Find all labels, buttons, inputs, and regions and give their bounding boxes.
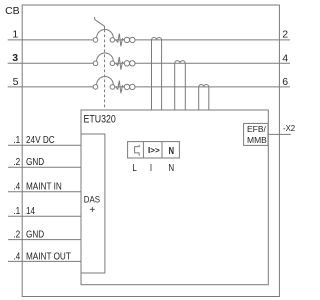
svg-text:N: N bbox=[168, 162, 174, 173]
svg-text:MAINT OUT: MAINT OUT bbox=[26, 249, 71, 261]
current sensor T3 bbox=[199, 85, 209, 110]
wire L3 (3-4) bbox=[8, 62, 290, 64]
wire to -X2 bbox=[268, 133, 291, 135]
svg-text:14: 14 bbox=[26, 204, 35, 216]
svg-text:-X2: -X2 bbox=[283, 124, 296, 133]
breaker CB pole 1 contacts bbox=[93, 30, 115, 43]
svg-text:6: 6 bbox=[282, 76, 288, 88]
svg-text:I>>: I>> bbox=[148, 145, 160, 155]
svg-text:.1: .1 bbox=[13, 133, 20, 145]
svg-text:.1: .1 bbox=[13, 204, 20, 216]
svg-text:L: L bbox=[132, 162, 136, 173]
svg-text:DAS: DAS bbox=[84, 194, 101, 205]
wire L5 (5-6) bbox=[8, 86, 290, 88]
overcurrent release pole 2 bbox=[116, 57, 135, 70]
L-curve pictogram bbox=[135, 145, 140, 156]
mechanical link (dashed) bbox=[104, 30, 106, 111]
breaker CB pole 3 contacts bbox=[93, 77, 115, 90]
wire MAINT OUT bbox=[8, 260, 81, 262]
svg-text:4: 4 bbox=[282, 52, 288, 64]
svg-text:+: + bbox=[89, 205, 95, 216]
svg-text:.2: .2 bbox=[13, 228, 20, 240]
svg-text:I: I bbox=[150, 162, 152, 173]
wire 24V DC bbox=[8, 144, 81, 146]
wire GND b bbox=[8, 239, 81, 241]
frame CB boundary bbox=[22, 5, 279, 297]
protection functions box L I N bbox=[128, 142, 180, 158]
svg-text:2: 2 bbox=[282, 29, 288, 41]
current sensor T2 bbox=[175, 61, 186, 110]
module DAS box bbox=[81, 134, 105, 273]
current sensor T1 bbox=[152, 38, 162, 110]
wire L1 (1-2) bbox=[8, 39, 290, 41]
svg-text:.4: .4 bbox=[13, 180, 20, 192]
svg-text:GND: GND bbox=[26, 228, 44, 240]
svg-text:5: 5 bbox=[13, 76, 19, 88]
svg-text:MAINT IN: MAINT IN bbox=[26, 180, 62, 192]
svg-text:CB: CB bbox=[5, 5, 20, 17]
trip unit ETU320 box bbox=[81, 110, 268, 285]
svg-text:3: 3 bbox=[12, 52, 18, 64]
svg-text:.4: .4 bbox=[13, 249, 20, 261]
svg-text:.2: .2 bbox=[13, 155, 20, 167]
svg-text:MMB: MMB bbox=[247, 135, 267, 145]
svg-text:1: 1 bbox=[12, 29, 18, 41]
overcurrent release pole 1 bbox=[116, 34, 135, 47]
wire MAINT IN bbox=[8, 191, 81, 193]
breaker CB pole 2 contacts bbox=[93, 53, 115, 66]
breaker latch bbox=[94, 17, 104, 30]
overcurrent release pole 3 bbox=[116, 81, 135, 94]
wire 14 bbox=[8, 215, 81, 217]
connector EFB/MMB box bbox=[244, 123, 268, 145]
svg-text:GND: GND bbox=[26, 155, 44, 167]
svg-text:N: N bbox=[169, 145, 174, 156]
svg-text:24V DC: 24V DC bbox=[26, 133, 55, 145]
svg-text:ETU320: ETU320 bbox=[84, 114, 117, 126]
wire GND a bbox=[8, 166, 81, 168]
svg-text:EFB/: EFB/ bbox=[247, 124, 267, 134]
